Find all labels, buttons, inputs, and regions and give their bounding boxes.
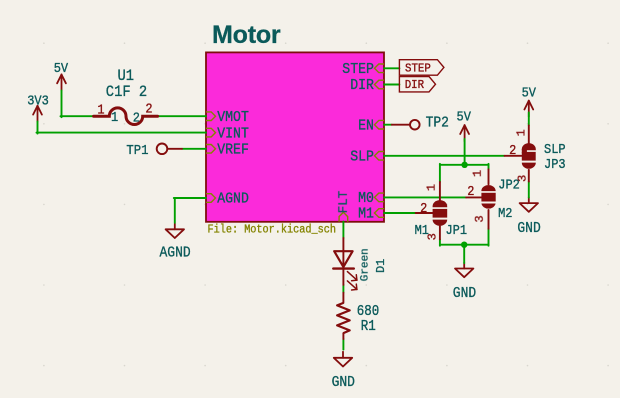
svg-text:SLP: SLP — [350, 149, 374, 166]
wire AGND — [174, 199, 176, 223]
wire rail to JP2 pin1 — [488, 164, 490, 170]
hierarchical sheet Motor — [206, 52, 384, 221]
sheet pin VREF — [206, 145, 216, 154]
junction at 5V / jumper rail — [461, 162, 467, 168]
wire R1 to GND — [342, 339, 344, 350]
svg-text:GND: GND — [332, 374, 355, 391]
wire junction to GND — [463, 245, 465, 263]
power symbol 5V (TP2 area) — [464, 125, 466, 141]
svg-text:C1F 2: C1F 2 — [106, 84, 147, 101]
solder jumper JP3 — [528, 125, 530, 143]
svg-text:2: 2 — [509, 142, 516, 158]
svg-text:5V: 5V — [522, 85, 537, 101]
svg-text:AGND: AGND — [160, 245, 191, 262]
svg-text:TP2: TP2 — [426, 115, 449, 132]
svg-text:2: 2 — [467, 183, 474, 199]
wire M0 to JP2 pin2 — [384, 196, 466, 198]
test point TP2 — [410, 120, 420, 130]
power symbol GND (below JP1/JP2) — [463, 263, 465, 269]
svg-text:3: 3 — [515, 175, 529, 182]
svg-text:M1: M1 — [415, 222, 430, 238]
svg-text:VMOT: VMOT — [217, 109, 249, 126]
sheet pin VINT — [206, 128, 216, 137]
svg-text:1: 1 — [111, 109, 118, 125]
wire FLT to D1 — [342, 222, 344, 238]
wire SLP to JP3 pin2 — [384, 155, 505, 157]
svg-text:3V3: 3V3 — [27, 93, 49, 109]
svg-text:M2: M2 — [498, 205, 512, 221]
wire fuse to VMOT — [158, 115, 206, 117]
power symbol GND (below JP3) — [528, 197, 530, 203]
sheet pin SLP — [375, 152, 385, 161]
svg-text:GND: GND — [517, 220, 540, 237]
wire JP1 pin3 down — [439, 239, 441, 245]
fuse U1 body — [94, 108, 158, 125]
svg-text:1: 1 — [514, 129, 528, 136]
power symbol 5V (JP3) — [528, 101, 530, 117]
svg-text:1: 1 — [471, 170, 485, 177]
svg-text:STEP: STEP — [342, 61, 374, 78]
power symbol AGND — [174, 223, 176, 229]
wire EN to TP2 — [384, 124, 392, 126]
svg-text:M1: M1 — [358, 206, 374, 223]
LED D1 emission arrows — [347, 272, 357, 281]
svg-text:AGND: AGND — [217, 191, 249, 208]
svg-text:M0: M0 — [358, 190, 374, 207]
svg-text:FLT: FLT — [337, 190, 351, 213]
svg-text:DIR: DIR — [405, 79, 424, 93]
svg-text:U1: U1 — [118, 68, 135, 85]
svg-text:1: 1 — [97, 102, 104, 118]
wire STEP — [384, 67, 399, 69]
svg-text:3: 3 — [473, 215, 487, 222]
svg-text:5V: 5V — [54, 60, 69, 76]
test point TP1 — [157, 144, 168, 155]
svg-text:DIR: DIR — [350, 77, 374, 94]
svg-text:680: 680 — [357, 304, 380, 320]
global label STEP — [399, 60, 444, 75]
svg-text:EN: EN — [358, 118, 374, 135]
svg-text:R1: R1 — [361, 319, 376, 335]
sheet pin STEP — [375, 64, 385, 73]
svg-text:SLP: SLP — [544, 141, 566, 157]
LED D1 — [342, 238, 344, 269]
sheet pin M0 — [375, 193, 385, 202]
solder jumper JP1 — [439, 182, 441, 200]
power symbol 5V (left) — [61, 75, 63, 91]
wire JP3 pin3 to GND — [528, 182, 530, 198]
svg-text:File: Motor.kicad_sch: File: Motor.kicad_sch — [208, 224, 336, 237]
sheet pin VMOT — [206, 112, 216, 121]
wire 5V to fuse — [61, 91, 63, 118]
svg-text:5V: 5V — [457, 109, 472, 125]
svg-text:2: 2 — [133, 110, 140, 126]
sheet pin M1 — [375, 209, 385, 218]
sheet pin FLT — [339, 212, 348, 221]
svg-text:VINT: VINT — [217, 126, 249, 143]
sheet pin EN — [375, 120, 385, 129]
svg-text:2: 2 — [145, 101, 152, 117]
svg-text:1: 1 — [425, 184, 439, 191]
svg-text:JP1: JP1 — [446, 222, 468, 238]
sheet pin DIR — [375, 80, 385, 89]
solder jumper JP2 — [488, 169, 490, 184]
svg-text:Motor: Motor — [212, 21, 281, 49]
global label DIR — [399, 77, 435, 92]
wire 5V stem to junction — [464, 139, 466, 165]
svg-text:Green: Green — [359, 248, 371, 281]
wire TP1 to VREF — [182, 148, 206, 150]
junction at bottom rail / GND — [461, 242, 467, 248]
svg-text:VREF: VREF — [217, 142, 249, 159]
svg-text:2: 2 — [420, 200, 427, 216]
wire D1 to R1 — [342, 285, 344, 293]
power symbol GND (below R1) — [342, 352, 344, 358]
wire rail to JP1 pin1 — [439, 164, 441, 182]
resistor R1 — [342, 293, 344, 303]
svg-text:STEP: STEP — [405, 62, 431, 76]
wire bottom rail JP1-JP2 — [440, 244, 489, 246]
svg-text:TP1: TP1 — [126, 142, 148, 158]
wire DIR — [384, 84, 399, 86]
svg-text:D1: D1 — [374, 259, 388, 273]
wire 3V3 to VINT — [37, 121, 39, 133]
wire M1 to JP1 pin2 — [384, 212, 416, 214]
svg-text:JP3: JP3 — [544, 156, 566, 172]
power symbol 3V3 — [37, 106, 39, 122]
wire 5V to JP3 pin1 — [528, 112, 530, 125]
wire junction to JP1/JP2 pin1 rail — [440, 164, 489, 166]
svg-text:GND: GND — [453, 286, 476, 303]
sheet pin AGND — [206, 194, 216, 203]
wire JP2 pin3 down — [488, 229, 490, 246]
